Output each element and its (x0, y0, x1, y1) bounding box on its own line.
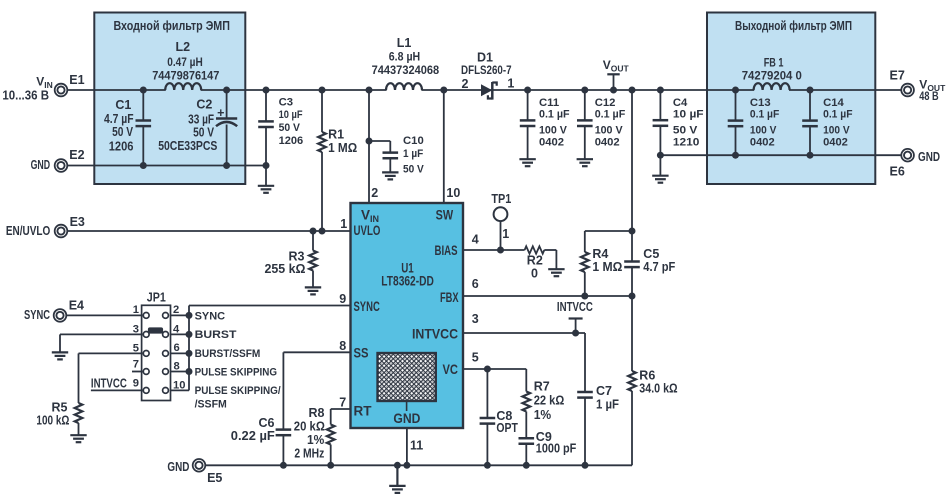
svg-text:1000 pF: 1000 pF (536, 442, 577, 456)
svg-text:9: 9 (339, 292, 346, 306)
svg-text:R2: R2 (527, 254, 543, 268)
svg-text:+: + (217, 106, 224, 120)
svg-text:FBX: FBX (440, 290, 459, 305)
svg-text:2: 2 (173, 304, 179, 316)
svg-text:4: 4 (472, 233, 479, 247)
svg-text:50CE33PCS: 50CE33PCS (158, 139, 217, 153)
svg-text:SS: SS (354, 346, 369, 361)
svg-text:C13: C13 (750, 97, 771, 109)
svg-text:0.1 µF: 0.1 µF (539, 108, 570, 120)
svg-text:INTVCC: INTVCC (91, 377, 127, 391)
svg-text:74479876147: 74479876147 (152, 71, 219, 83)
svg-text:10 µF: 10 µF (279, 109, 303, 121)
svg-text:74437324068: 74437324068 (372, 65, 440, 77)
svg-text:11: 11 (410, 439, 423, 453)
svg-text:2 MHz: 2 MHz (294, 447, 324, 461)
svg-text:0402: 0402 (823, 136, 848, 148)
svg-text:FB 1: FB 1 (764, 58, 784, 70)
svg-text:34.0 kΩ: 34.0 kΩ (639, 382, 677, 396)
svg-text:1%: 1% (307, 433, 324, 447)
svg-text:8: 8 (339, 339, 346, 353)
svg-text:0.1 µF: 0.1 µF (595, 108, 626, 120)
svg-text:SYNC: SYNC (24, 308, 50, 322)
svg-text:C1: C1 (115, 98, 131, 112)
svg-text:VC: VC (443, 362, 459, 377)
svg-text:0.22 µF: 0.22 µF (231, 429, 275, 443)
svg-text:0.47 µH: 0.47 µH (167, 57, 203, 69)
svg-text:E1: E1 (69, 73, 84, 87)
svg-text:7: 7 (339, 396, 346, 410)
svg-text:0402: 0402 (750, 136, 775, 148)
svg-text:L1: L1 (397, 36, 412, 50)
svg-text:C3: C3 (279, 97, 293, 109)
svg-text:C10: C10 (403, 135, 424, 147)
svg-text:50 V: 50 V (673, 125, 698, 137)
svg-text:5: 5 (133, 343, 139, 355)
svg-text:50 V: 50 V (403, 164, 424, 176)
svg-text:3: 3 (472, 312, 479, 326)
svg-text:BURST: BURST (195, 329, 237, 341)
svg-text:SYNC: SYNC (354, 299, 380, 314)
svg-text:1: 1 (340, 217, 347, 231)
svg-text:100 V: 100 V (823, 125, 850, 137)
svg-text:E3: E3 (70, 215, 85, 229)
svg-text:SW: SW (436, 207, 454, 222)
svg-text:1%: 1% (534, 408, 552, 422)
svg-text:SYNC: SYNC (195, 310, 226, 322)
svg-text:LT8362-DD: LT8362-DD (381, 273, 434, 288)
svg-text:C4: C4 (673, 97, 688, 109)
svg-text:R6: R6 (639, 369, 655, 383)
svg-text:GND: GND (918, 150, 940, 164)
svg-text:10: 10 (446, 186, 460, 200)
svg-text:R4: R4 (592, 247, 608, 261)
svg-text:1: 1 (502, 227, 509, 241)
svg-text:100 V: 100 V (595, 125, 623, 137)
svg-text:6: 6 (472, 277, 479, 291)
svg-text:C11: C11 (539, 97, 559, 109)
svg-text:VOUT: VOUT (603, 58, 630, 74)
svg-text:5: 5 (472, 351, 479, 365)
svg-text:8: 8 (174, 361, 180, 373)
svg-text:BURST/SSFM: BURST/SSFM (195, 348, 261, 360)
svg-text:PULSE SKIPPING/: PULSE SKIPPING/ (195, 385, 281, 397)
svg-text:Выходной фильтр ЭМП: Выходной фильтр ЭМП (735, 19, 852, 33)
svg-text:1 MΩ: 1 MΩ (592, 260, 622, 274)
svg-text:C6: C6 (259, 416, 275, 430)
svg-text:0: 0 (531, 267, 538, 281)
svg-text:4.7 pF: 4.7 pF (643, 260, 675, 274)
svg-text:R1: R1 (328, 128, 344, 142)
svg-text:4: 4 (173, 324, 180, 336)
svg-text:7: 7 (133, 359, 139, 371)
svg-text:22 kΩ: 22 kΩ (534, 394, 565, 408)
svg-text:R7: R7 (534, 380, 550, 394)
svg-text:JP1: JP1 (147, 291, 166, 305)
svg-text:6.8 µH: 6.8 µH (389, 52, 420, 64)
svg-text:0.1 µF: 0.1 µF (750, 108, 779, 120)
svg-text:DFLS260-7: DFLS260-7 (461, 65, 512, 77)
svg-text:L2: L2 (176, 40, 191, 54)
svg-text:PULSE SKIPPING: PULSE SKIPPING (195, 366, 278, 378)
svg-text:GND: GND (31, 158, 50, 172)
svg-text:Входной фильтр ЭМП: Входной фильтр ЭМП (113, 19, 230, 33)
svg-text:1210: 1210 (673, 136, 700, 148)
svg-text:2: 2 (371, 186, 378, 200)
svg-text:E4: E4 (69, 299, 84, 313)
svg-text:C2: C2 (196, 98, 212, 112)
svg-text:10: 10 (173, 380, 185, 392)
svg-text:6: 6 (174, 342, 180, 354)
svg-text:255 kΩ: 255 kΩ (265, 262, 306, 276)
svg-text:1 µF: 1 µF (403, 148, 423, 160)
svg-text:UVLO: UVLO (354, 223, 381, 238)
svg-text:100 V: 100 V (750, 125, 777, 137)
svg-text:48 В: 48 В (919, 91, 938, 103)
svg-text:1206: 1206 (279, 135, 304, 147)
svg-text:R8: R8 (309, 406, 325, 420)
svg-text:20 kΩ: 20 kΩ (294, 420, 325, 434)
svg-text:INTVCC: INTVCC (412, 327, 458, 342)
svg-text:1: 1 (507, 77, 514, 91)
svg-text:100 V: 100 V (539, 125, 567, 137)
svg-text:100 kΩ: 100 kΩ (36, 413, 69, 427)
svg-text:C14: C14 (823, 97, 844, 109)
svg-text:1 MΩ: 1 MΩ (328, 141, 357, 155)
svg-text:C7: C7 (596, 384, 612, 398)
svg-text:2: 2 (461, 77, 468, 91)
svg-text:RT: RT (354, 404, 373, 419)
svg-text:1: 1 (133, 304, 139, 316)
svg-text:TP1: TP1 (491, 192, 511, 206)
svg-text:GND: GND (393, 411, 420, 426)
svg-text:9: 9 (133, 378, 139, 390)
svg-text:/SSFM: /SSFM (195, 399, 227, 411)
svg-text:0.1 µF: 0.1 µF (823, 108, 852, 120)
svg-text:10 µF: 10 µF (673, 108, 704, 120)
svg-text:0402: 0402 (595, 136, 620, 148)
svg-text:74279204 0: 74279204 0 (742, 71, 802, 83)
svg-text:1 µF: 1 µF (596, 398, 619, 412)
svg-text:E7: E7 (890, 69, 905, 83)
svg-text:E5: E5 (207, 471, 222, 485)
svg-text:C12: C12 (595, 97, 616, 109)
svg-text:D1: D1 (477, 50, 493, 64)
svg-text:E2: E2 (69, 148, 84, 162)
svg-text:3: 3 (133, 324, 139, 336)
svg-text:0402: 0402 (539, 136, 564, 148)
svg-text:GND: GND (167, 460, 189, 474)
svg-text:50 V: 50 V (112, 125, 133, 139)
svg-text:INTVCC: INTVCC (557, 300, 593, 314)
svg-text:E6: E6 (890, 164, 905, 178)
svg-text:EN/UVLO: EN/UVLO (6, 224, 51, 238)
svg-text:C5: C5 (643, 247, 659, 261)
svg-text:10...36 В: 10...36 В (2, 88, 49, 102)
svg-text:OPT: OPT (496, 421, 518, 435)
svg-text:1206: 1206 (109, 139, 134, 153)
svg-text:BIAS: BIAS (435, 243, 458, 258)
svg-text:50 V: 50 V (279, 122, 301, 134)
svg-text:50 V: 50 V (193, 125, 215, 139)
